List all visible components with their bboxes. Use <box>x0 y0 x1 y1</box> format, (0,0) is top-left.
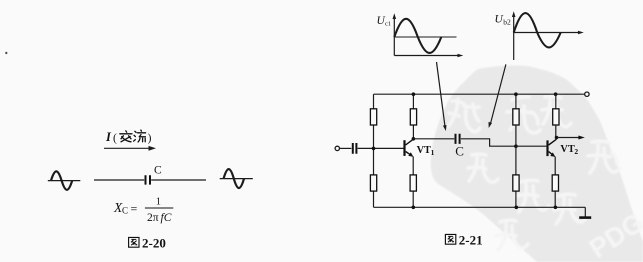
node dot top rail col4 <box>554 92 558 96</box>
svg-text:C: C <box>122 206 128 216</box>
svg-text:(: ( <box>113 133 117 145</box>
supply terminal circle <box>585 92 589 96</box>
waveform plot Uc1 sine <box>394 19 441 53</box>
wire VT1 collector to coupling capacitor <box>413 138 454 140</box>
svg-text:U: U <box>495 14 504 26</box>
svg-text:VT: VT <box>417 145 431 156</box>
VT1 collector column wire <box>412 94 414 139</box>
transistor VT1 <box>405 139 414 156</box>
wire right of capacitor <box>151 179 206 181</box>
svg-text:VT: VT <box>560 144 574 155</box>
node dot bottom col4 <box>554 206 558 210</box>
waveform plot Uc1 zero midline <box>394 36 456 38</box>
caption 图 2-20 <box>129 237 139 247</box>
capacitor C (fig 2-20) <box>146 175 151 184</box>
resistor R3 <box>513 109 519 125</box>
watermark glyph 4 <box>588 141 620 173</box>
bias column 3 (R3 over R4) vertical wire <box>515 94 517 207</box>
watermark glyph 1 <box>448 99 480 132</box>
left sine symbol <box>48 171 81 189</box>
bias column 1 (R1 over R2) vertical wire <box>373 94 375 207</box>
wire capacitor to VT1 base <box>358 147 404 149</box>
node dot top rail col2 <box>412 92 416 96</box>
wire capacitor to VT2 base with step <box>461 139 547 146</box>
stray speck <box>5 52 7 54</box>
ground <box>584 207 586 217</box>
waveform plot Ub2 vertical axis <box>513 16 515 61</box>
resistor R1 <box>370 109 376 125</box>
svg-text:2-20: 2-20 <box>142 236 166 251</box>
svg-text:C: C <box>455 144 464 159</box>
svg-text:=: = <box>131 201 138 215</box>
coupling capacitor C <box>456 134 460 144</box>
node dot top rail col3 <box>514 92 518 96</box>
node dot col1/base wire <box>372 147 376 151</box>
svg-text:c1: c1 <box>385 21 391 28</box>
waveform plot Uc1 vertical axis <box>393 18 395 56</box>
node dot col3/base wire <box>514 144 518 148</box>
svg-text:1: 1 <box>431 148 435 157</box>
caption 图 2-21 <box>445 234 455 244</box>
svg-text:fC: fC <box>161 212 172 224</box>
VT2 emitter arrowhead <box>550 152 555 157</box>
input terminal circle <box>335 146 339 150</box>
top supply rail <box>374 93 585 95</box>
waveform plot Ub2 horizontal axis <box>514 32 580 34</box>
交 glyph <box>120 131 132 142</box>
right sine symbol <box>220 169 253 188</box>
VT2 collector column wire <box>555 94 557 137</box>
svg-text:b2: b2 <box>503 18 511 27</box>
svg-text:C: C <box>154 165 162 177</box>
svg-text:I: I <box>105 130 112 144</box>
VT2 collector node dot <box>555 136 559 140</box>
node dot bottom col2 <box>412 206 416 210</box>
watermark glyph 5 <box>468 154 498 182</box>
watermark glyph 8 <box>554 194 586 224</box>
svg-text:1: 1 <box>156 197 161 208</box>
watermark glyph 6 <box>516 180 549 212</box>
watermark glyph 7 <box>496 220 528 250</box>
bottom rail <box>374 206 586 208</box>
resistor Rc1 <box>410 109 416 125</box>
resistor Re2 <box>552 175 558 191</box>
node dot bottom col3 <box>515 206 519 210</box>
watermark gray blob <box>431 66 643 262</box>
transistor VT2 <box>548 139 557 156</box>
wire left of capacitor C <box>94 179 144 181</box>
VT1 collector node dot <box>412 137 416 141</box>
svg-text:2-21: 2-21 <box>459 233 483 248</box>
resistor Rc2 <box>553 109 559 125</box>
watermark glyph 3 <box>542 96 571 127</box>
annotation arrow from Uc1 to wire <box>437 62 446 127</box>
current arrow I line (fig 2-20) <box>104 147 150 149</box>
svg-text:2: 2 <box>574 147 578 156</box>
arrowhead of current arrow <box>149 146 157 151</box>
resistor R4 <box>513 175 519 191</box>
annotation arrow from Ub2 to wire <box>491 64 506 123</box>
input capacitor <box>353 143 357 154</box>
watermark glyph 2 <box>507 97 540 133</box>
VT1 emitter arrowhead <box>408 152 413 157</box>
svg-text:2π: 2π <box>147 212 159 224</box>
input wire <box>340 147 352 149</box>
waveform plot Uc1 bottom axis <box>394 55 459 57</box>
VT2 emitter column wire <box>554 157 556 208</box>
output arrow from VT2 collector <box>557 137 581 139</box>
流 glyph <box>134 130 146 142</box>
svg-text:): ) <box>148 133 152 145</box>
waveform plot Ub2 sine <box>514 13 561 47</box>
resistor Re1 <box>410 175 416 191</box>
resistor R2 <box>370 175 376 191</box>
VT1 emitter column wire <box>412 156 414 207</box>
